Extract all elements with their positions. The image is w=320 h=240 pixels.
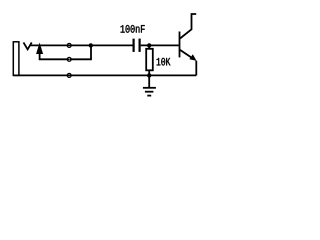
- transistor Q1 emitter down wire: [195, 61, 197, 76]
- junction node C bottom of resistor: [147, 73, 151, 77]
- resistor R1 body: [146, 49, 153, 71]
- jack J1 tip stem wire: [40, 53, 69, 59]
- label 10K for resistor: [157, 58, 171, 66]
- wire top from V to pin: [31, 44, 134, 46]
- junction node B top of resistor: [147, 43, 151, 47]
- transistor Q1 emitter arrowhead: [189, 54, 196, 61]
- label 100nF for capacitor: [121, 25, 145, 33]
- capacitor C1 plate right: [139, 39, 141, 52]
- pin circle middle: [67, 57, 71, 61]
- capacitor C1 plate left: [133, 39, 135, 52]
- wire bottom rail: [14, 74, 197, 76]
- resistor R1 top lead: [148, 45, 150, 48]
- pin circle top: [67, 43, 71, 47]
- transistor Q1 base bar: [179, 32, 181, 58]
- ground bar 2: [145, 91, 154, 93]
- transistor Q1 collector diagonal: [180, 14, 196, 39]
- wire cap to base: [141, 44, 179, 46]
- jack J1 tip contact arrow: [36, 43, 43, 55]
- resistor R1 bottom lead: [148, 70, 150, 75]
- pin circle bottom: [67, 73, 71, 77]
- ground stem: [148, 75, 150, 87]
- transistor Q1 emitter diagonal: [180, 50, 193, 58]
- wire middle pin to corner: [69, 45, 91, 59]
- ground bar 3: [147, 95, 151, 97]
- jack J1 switch contact V: [24, 42, 32, 49]
- junction node A: [89, 43, 93, 47]
- jack J1 sleeve body: [13, 42, 19, 76]
- ground bar 1: [143, 87, 156, 89]
